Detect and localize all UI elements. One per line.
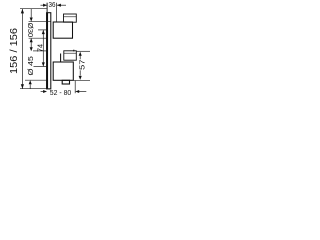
svg-text:Ø30: Ø30 xyxy=(26,23,35,38)
svg-text:Ø 45: Ø 45 xyxy=(26,56,35,76)
svg-text:57: 57 xyxy=(78,60,87,71)
svg-text:52 - 80: 52 - 80 xyxy=(50,90,72,97)
svg-text:156 / 156: 156 / 156 xyxy=(9,28,20,74)
svg-text:74: 74 xyxy=(36,44,45,52)
svg-text:36: 36 xyxy=(49,0,56,9)
